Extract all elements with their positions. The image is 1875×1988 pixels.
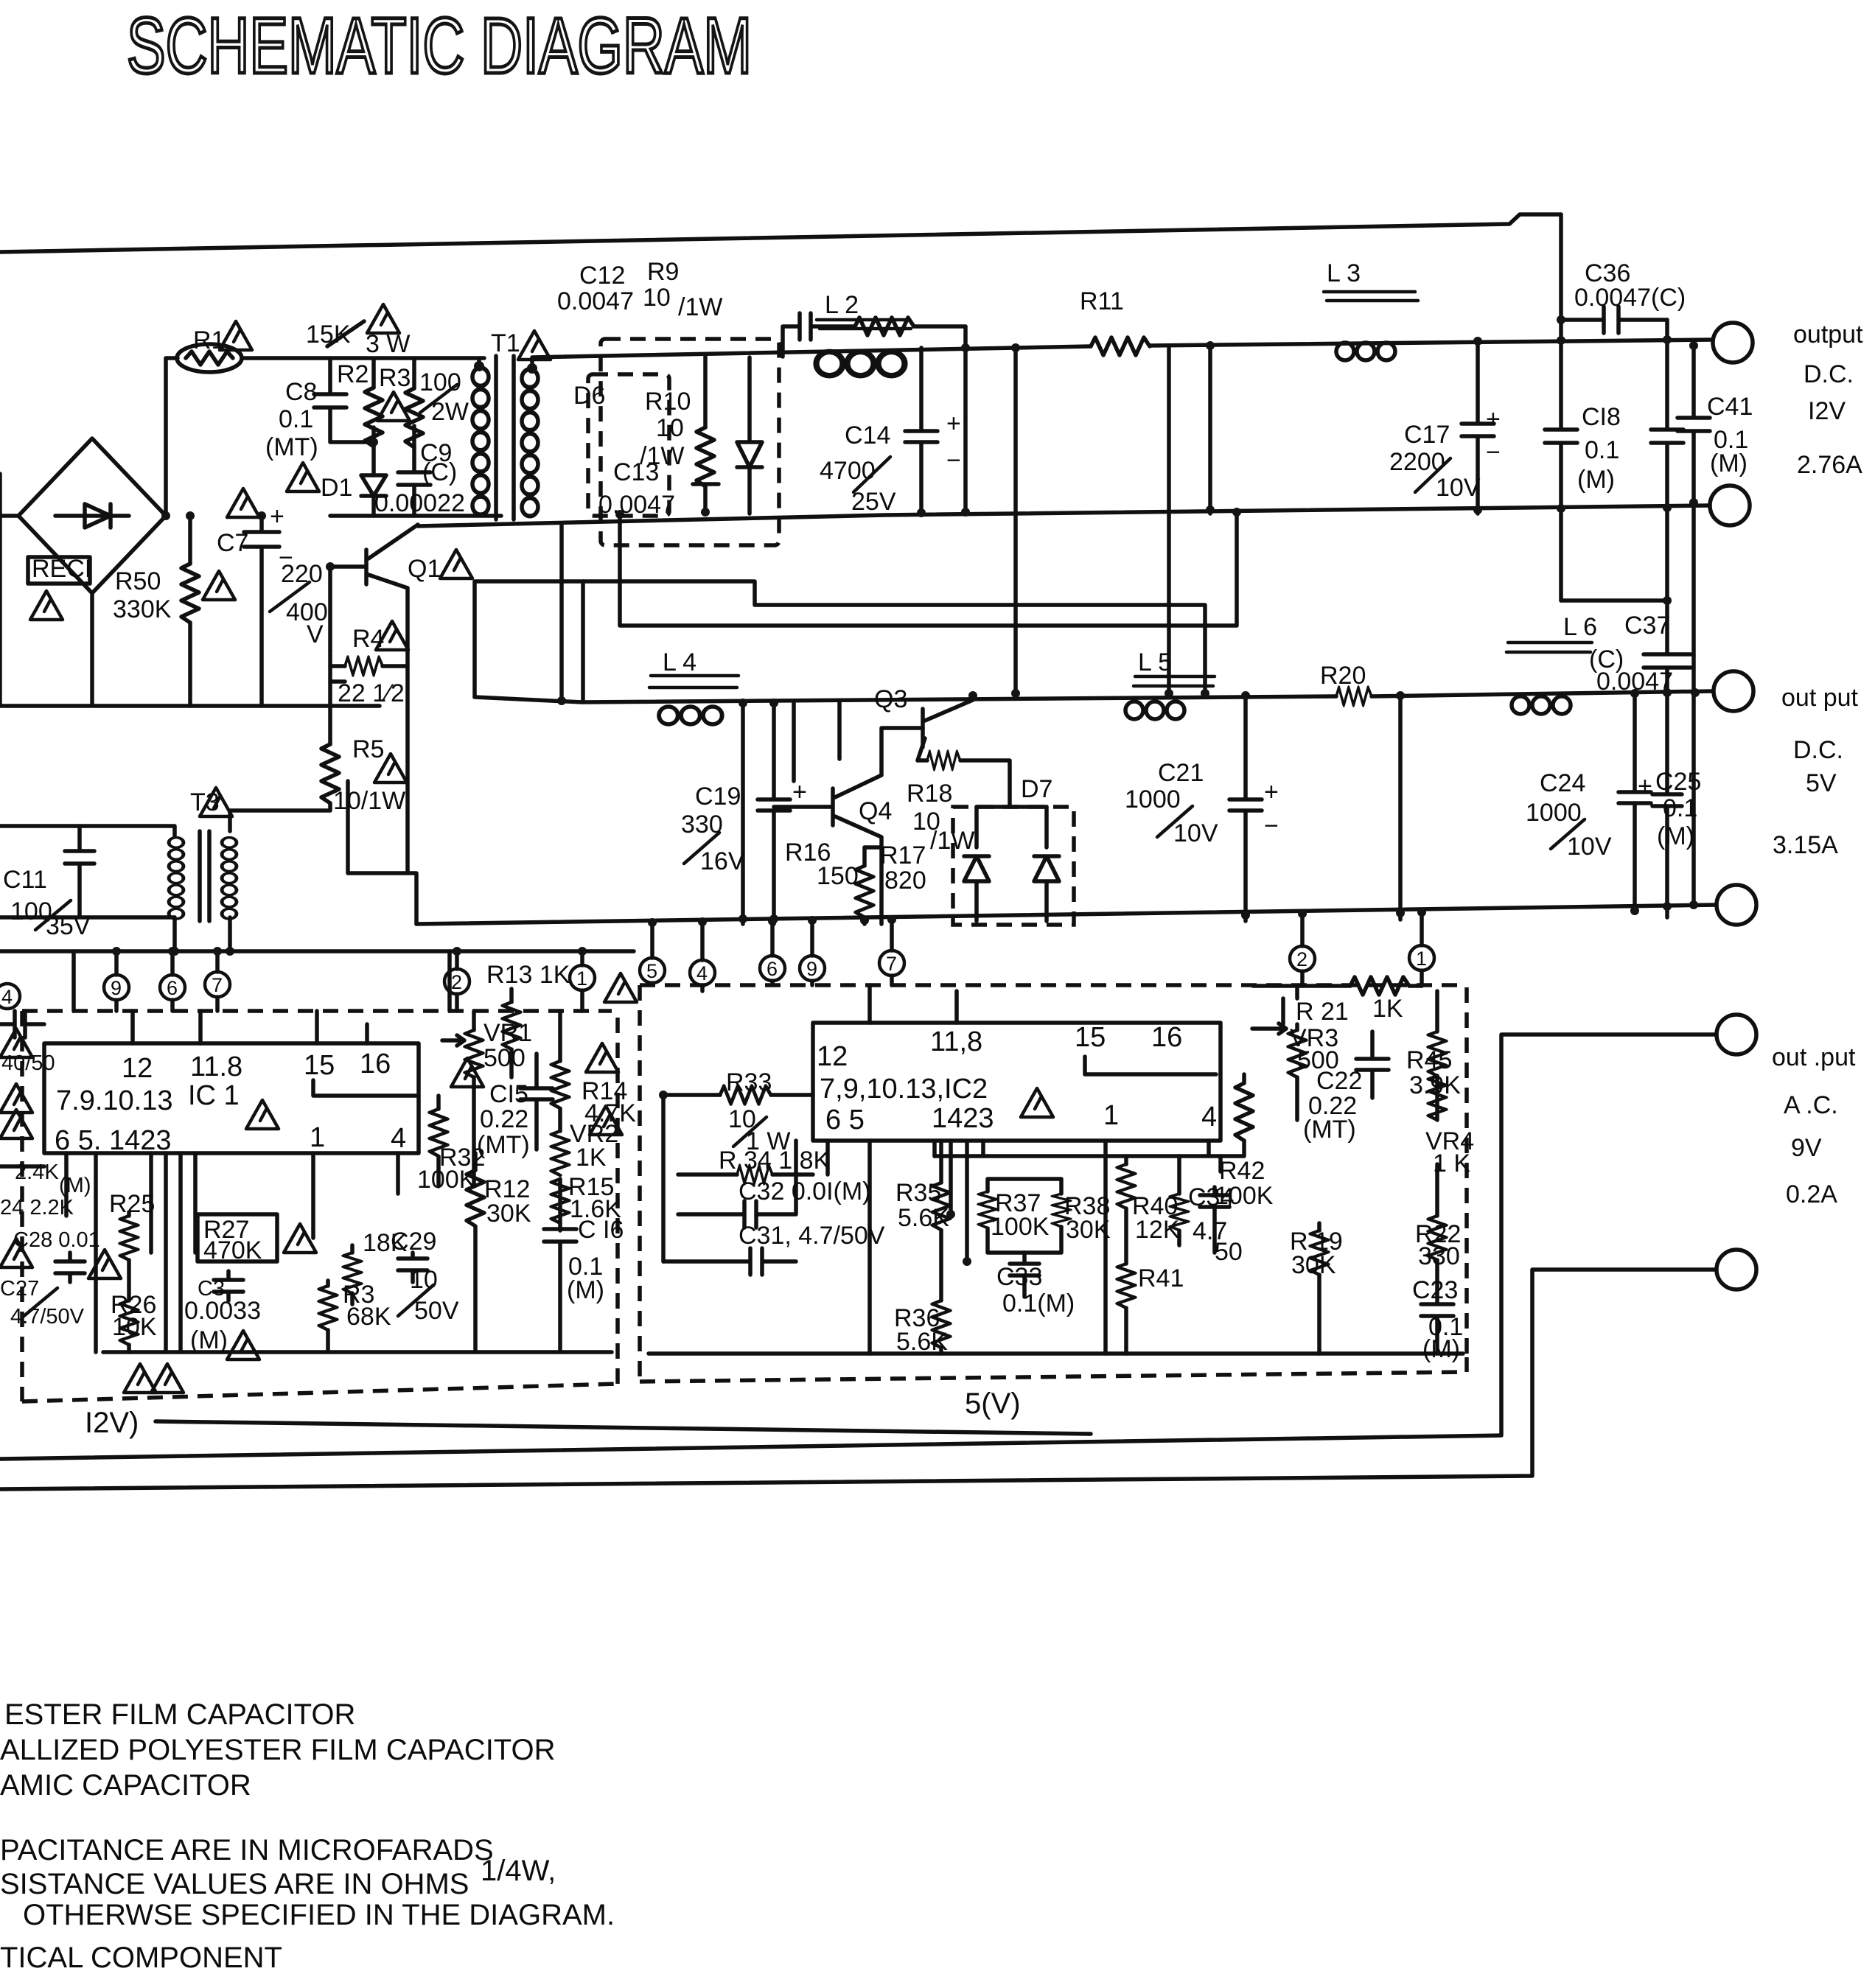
svg-text:0.00022: 0.00022: [374, 489, 465, 517]
svg-text:30K: 30K: [486, 1200, 531, 1228]
svg-text:R41: R41: [1138, 1264, 1184, 1292]
svg-text:5.6K: 5.6K: [896, 1328, 948, 1356]
svg-text:R13 1K: R13 1K: [486, 961, 570, 989]
svg-text:10K: 10K: [112, 1313, 157, 1341]
svg-text:7: 7: [886, 953, 897, 975]
svg-text:C14: C14: [845, 421, 890, 449]
svg-text:5(V): 5(V): [965, 1387, 1021, 1420]
svg-text:C13: C13: [613, 458, 659, 486]
svg-text:(M): (M): [190, 1326, 228, 1354]
svg-text:/1W: /1W: [930, 827, 974, 855]
svg-text:R5: R5: [352, 735, 384, 763]
svg-text:330: 330: [1418, 1242, 1460, 1270]
svg-text:+: +: [1638, 772, 1652, 800]
svg-text:L 5: L 5: [1138, 648, 1172, 676]
svg-text:12: 12: [122, 1053, 153, 1084]
svg-text:0.0047: 0.0047: [598, 491, 675, 519]
svg-text:5.6K: 5.6K: [898, 1204, 949, 1232]
svg-text:R3: R3: [379, 364, 411, 392]
svg-text:68K: 68K: [346, 1303, 391, 1331]
svg-text:5V: 5V: [1806, 769, 1837, 797]
svg-text:1: 1: [576, 967, 587, 990]
svg-text:820: 820: [884, 867, 926, 895]
svg-text:SCHEMATIC DIAGRAM: SCHEMATIC DIAGRAM: [127, 1, 752, 90]
svg-text:24 2.2K: 24 2.2K: [0, 1196, 74, 1219]
svg-text:1/4W,: 1/4W,: [481, 1855, 556, 1887]
svg-text:16V: 16V: [700, 847, 745, 875]
svg-text:+: +: [946, 410, 961, 438]
svg-text:10V: 10V: [1173, 819, 1218, 847]
svg-text:9: 9: [111, 977, 122, 999]
svg-text:L 3: L 3: [1327, 259, 1361, 287]
svg-text:0.1(M): 0.1(M): [1002, 1289, 1075, 1317]
svg-text:2: 2: [1296, 948, 1307, 970]
svg-text:RECI: RECI: [32, 555, 91, 583]
svg-text:+: +: [792, 778, 807, 806]
svg-text:−: −: [1486, 438, 1501, 466]
svg-text:+: +: [270, 503, 284, 531]
svg-text:R18: R18: [907, 780, 952, 808]
svg-text:30K: 30K: [1066, 1216, 1111, 1244]
svg-text:AMIC CAPACITOR: AMIC CAPACITOR: [0, 1769, 251, 1802]
svg-text:ALLIZED POLYESTER FILM CAPACI: ALLIZED POLYESTER FILM CAPACITOR: [0, 1734, 556, 1766]
svg-text:10/1W: 10/1W: [333, 787, 405, 815]
svg-text:(MT): (MT): [265, 433, 318, 461]
svg-text:(M): (M): [567, 1276, 604, 1304]
svg-text:C23: C23: [1412, 1276, 1458, 1304]
svg-text:7: 7: [212, 974, 223, 996]
svg-text:−: −: [1264, 812, 1279, 840]
svg-text:R4: R4: [352, 625, 384, 653]
svg-text:1: 1: [1416, 948, 1427, 970]
svg-text:11.8: 11.8: [190, 1051, 242, 1082]
svg-text:L 2: L 2: [825, 291, 859, 319]
svg-text:C32 0.0I(M): C32 0.0I(M): [739, 1177, 871, 1205]
svg-text:D.C.: D.C.: [1804, 360, 1854, 388]
svg-text:10V: 10V: [1567, 833, 1612, 861]
svg-text:2W: 2W: [431, 398, 469, 426]
svg-text:I2V: I2V: [1808, 397, 1846, 425]
svg-text:C29: C29: [391, 1228, 436, 1256]
svg-text:+: +: [1486, 405, 1501, 433]
svg-text:4: 4: [1, 986, 13, 1008]
svg-text:T3: T3: [190, 788, 220, 816]
svg-text:T1: T1: [491, 329, 520, 357]
svg-text:V: V: [307, 620, 324, 648]
svg-text:CI5: CI5: [489, 1080, 528, 1108]
svg-text:4: 4: [1201, 1102, 1217, 1133]
svg-text:12: 12: [817, 1041, 848, 1072]
svg-text:Q1: Q1: [408, 555, 441, 583]
svg-text:(MT): (MT): [1303, 1116, 1356, 1144]
svg-text:C24: C24: [1540, 769, 1585, 797]
svg-text:SISTANCE VALUES ARE IN OHMS: SISTANCE VALUES ARE IN OHMS: [0, 1868, 469, 1900]
svg-text:C27: C27: [0, 1277, 39, 1301]
svg-text:100K: 100K: [991, 1213, 1050, 1241]
svg-text:100K: 100K: [417, 1166, 476, 1194]
svg-text:2.4K: 2.4K: [15, 1161, 59, 1184]
svg-text:D.C.: D.C.: [1793, 736, 1843, 764]
svg-text:100K: 100K: [1215, 1182, 1274, 1210]
svg-text:R50: R50: [115, 567, 161, 595]
svg-text:C12: C12: [579, 262, 625, 290]
svg-text:C21: C21: [1158, 759, 1204, 787]
svg-text:C I6: C I6: [578, 1216, 624, 1244]
svg-text:6: 6: [167, 977, 178, 999]
svg-text:1K: 1K: [1372, 995, 1403, 1023]
svg-text:(M): (M): [59, 1174, 91, 1197]
svg-text:R45: R45: [1406, 1046, 1452, 1074]
svg-text:330K: 330K: [113, 595, 172, 623]
svg-text:D1: D1: [321, 474, 352, 502]
svg-text:C31, 4.7/50V: C31, 4.7/50V: [739, 1222, 885, 1250]
svg-text:R11: R11: [1080, 287, 1124, 315]
svg-text:15K: 15K: [306, 321, 351, 349]
svg-text:1423: 1423: [932, 1103, 994, 1134]
svg-text:IC 1: IC 1: [188, 1080, 240, 1111]
svg-text:C8: C8: [285, 378, 317, 406]
svg-text:(M): (M): [1710, 449, 1747, 477]
svg-text:25V: 25V: [851, 488, 896, 516]
svg-text:3 W: 3 W: [366, 330, 410, 358]
svg-text:R 21: R 21: [1296, 998, 1349, 1026]
svg-text:500: 500: [483, 1044, 526, 1072]
svg-text:9V: 9V: [1791, 1134, 1822, 1162]
svg-text:(M): (M): [1657, 822, 1694, 850]
svg-text:1000: 1000: [1125, 785, 1181, 813]
svg-text:output: output: [1793, 321, 1863, 349]
svg-text:C28 0.01: C28 0.01: [13, 1228, 100, 1252]
svg-text:L 6: L 6: [1563, 613, 1597, 641]
svg-text:R35: R35: [895, 1179, 941, 1207]
svg-text:A .C.: A .C.: [1784, 1091, 1838, 1119]
svg-text:0.0047(C): 0.0047(C): [1574, 284, 1686, 312]
svg-text:Q3: Q3: [874, 685, 907, 713]
svg-text:R20: R20: [1320, 662, 1366, 690]
svg-text:R25: R25: [109, 1190, 155, 1218]
svg-text:CI8: CI8: [1582, 403, 1621, 431]
svg-text:4: 4: [696, 962, 708, 984]
svg-text:R33: R33: [726, 1068, 772, 1096]
svg-text:1: 1: [1103, 1100, 1119, 1131]
svg-text:0.1: 0.1: [1663, 794, 1697, 822]
svg-text:30K: 30K: [1291, 1251, 1336, 1279]
svg-text:out put: out put: [1781, 684, 1859, 712]
svg-text:TICAL COMPONENT: TICAL COMPONENT: [0, 1942, 282, 1974]
svg-text:1 K: 1 K: [1433, 1149, 1470, 1177]
svg-text:50V: 50V: [414, 1297, 459, 1325]
svg-text:11,8: 11,8: [930, 1026, 982, 1057]
svg-text:6 5. 1423: 6 5. 1423: [55, 1125, 171, 1156]
svg-text:(M): (M): [1422, 1335, 1460, 1363]
svg-text:VR1: VR1: [483, 1019, 532, 1047]
svg-text:16: 16: [360, 1049, 391, 1079]
svg-text:C41: C41: [1707, 393, 1753, 421]
svg-text:C17: C17: [1404, 421, 1450, 449]
svg-text:R2: R2: [337, 360, 369, 388]
svg-text:C11: C11: [3, 866, 47, 894]
svg-text:−: −: [946, 447, 961, 475]
svg-text:50: 50: [1215, 1238, 1243, 1266]
svg-text:/1W: /1W: [678, 293, 722, 321]
svg-text:OTHERWSE SPECIFIED IN THE: OTHERWSE SPECIFIED IN THE DIAGRAM.: [23, 1899, 615, 1931]
svg-text:3.15A: 3.15A: [1773, 831, 1838, 859]
svg-text:Q4: Q4: [859, 797, 892, 825]
svg-text:2.76A: 2.76A: [1797, 451, 1862, 479]
svg-text:100: 100: [419, 368, 461, 396]
svg-text:R17: R17: [880, 841, 926, 869]
svg-text:6: 6: [767, 958, 778, 980]
svg-text:6 5: 6 5: [825, 1105, 865, 1135]
svg-text:22 1⁄2: 22 1⁄2: [338, 679, 405, 707]
svg-text:C37: C37: [1624, 612, 1670, 640]
svg-text:15: 15: [304, 1050, 335, 1081]
svg-text:PACITANCE ARE IN MICROFARAD: PACITANCE ARE IN MICROFARADS: [0, 1834, 494, 1866]
svg-text:0.1: 0.1: [1585, 436, 1619, 464]
svg-text:3.9K: 3.9K: [1409, 1071, 1461, 1099]
svg-text:15: 15: [1075, 1022, 1106, 1053]
svg-text:C25: C25: [1655, 768, 1701, 796]
svg-text:150: 150: [817, 862, 859, 890]
svg-text:C22: C22: [1316, 1067, 1362, 1095]
svg-text:+: +: [1264, 778, 1279, 806]
svg-text:1: 1: [310, 1122, 325, 1153]
svg-text:10: 10: [410, 1266, 438, 1294]
svg-text:2: 2: [451, 971, 462, 993]
svg-text:L 4: L 4: [663, 648, 696, 676]
svg-text:R9: R9: [647, 258, 679, 286]
svg-text:R42: R42: [1219, 1157, 1265, 1185]
svg-text:R1: R1: [193, 326, 225, 354]
svg-text:out .put: out .put: [1772, 1043, 1856, 1071]
svg-text:4: 4: [391, 1123, 406, 1154]
svg-text:0.1: 0.1: [279, 405, 313, 433]
svg-text:12K: 12K: [1135, 1216, 1180, 1244]
svg-text:R 34 1.8K: R 34 1.8K: [719, 1147, 831, 1175]
svg-text:5: 5: [646, 960, 657, 982]
svg-text:10: 10: [643, 284, 671, 312]
svg-text:I2V): I2V): [85, 1407, 139, 1439]
svg-text:C3: C3: [198, 1277, 225, 1301]
svg-text:ESTER FILM CAPACITOR: ESTER FILM CAPACITOR: [4, 1698, 355, 1731]
svg-text:D7: D7: [1021, 775, 1052, 803]
svg-text:C7: C7: [217, 529, 248, 557]
svg-text:7.9.10.13: 7.9.10.13: [56, 1085, 172, 1116]
svg-text:0.2A: 0.2A: [1786, 1180, 1837, 1208]
svg-text:(C): (C): [422, 458, 457, 486]
svg-text:C19: C19: [695, 783, 741, 811]
svg-text:1K: 1K: [576, 1144, 607, 1172]
svg-text:10V: 10V: [1436, 474, 1481, 502]
svg-text:1000: 1000: [1526, 799, 1582, 827]
svg-text:C33: C33: [996, 1263, 1042, 1291]
svg-text:0.0033: 0.0033: [184, 1297, 261, 1325]
svg-text:9: 9: [806, 958, 817, 980]
svg-text:0.0047: 0.0047: [557, 287, 634, 315]
svg-text:(M): (M): [1577, 466, 1615, 494]
svg-text:7,9,10.13,IC2: 7,9,10.13,IC2: [820, 1074, 988, 1105]
svg-text:0.22: 0.22: [480, 1105, 528, 1133]
svg-text:220: 220: [281, 560, 323, 588]
svg-text:470K: 470K: [203, 1236, 262, 1264]
svg-text:40/50: 40/50: [1, 1051, 55, 1075]
svg-text:16: 16: [1151, 1022, 1182, 1053]
